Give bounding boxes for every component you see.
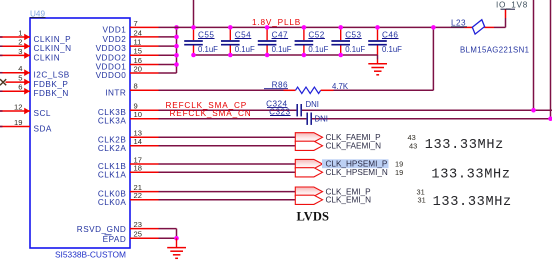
wire RSVD_GND/EPAD to ground bbox=[159, 229, 179, 241]
svg-text:SDA: SDA bbox=[34, 125, 52, 134]
svg-text:0.1uF: 0.1uF bbox=[382, 45, 402, 54]
pin 3 CLKIN wire bbox=[0, 47, 60, 63]
svg-text:0.1uF: 0.1uF bbox=[235, 45, 255, 54]
svg-text:10: 10 bbox=[134, 110, 142, 119]
svg-text:R86: R86 bbox=[272, 80, 288, 89]
pin 19 SDA wire bbox=[0, 118, 52, 134]
wire to CLK_FAEMI_N bbox=[159, 145, 296, 147]
capacitor C323 DNI bbox=[269, 107, 328, 125]
wire rail to ferrite L23 bbox=[464, 26, 506, 28]
wire VDD bus verticals and horizontals bbox=[159, 27, 177, 73]
svg-text:8: 8 bbox=[134, 82, 138, 91]
net label REFCLK_SMA_CN bbox=[170, 109, 252, 118]
capacitor C52 0.1uF bbox=[295, 27, 329, 55]
svg-text:CLKIN_P: CLKIN_P bbox=[34, 35, 72, 44]
svg-text:31: 31 bbox=[418, 196, 426, 205]
svg-text:CLK2A: CLK2A bbox=[98, 144, 126, 153]
U49 reference designator bbox=[30, 9, 46, 18]
power net IO_1V8 bbox=[496, 1, 528, 28]
pin 17 CLK1B stub bbox=[98, 155, 159, 171]
svg-text:CLK3A: CLK3A bbox=[98, 117, 126, 126]
svg-text:C52: C52 bbox=[308, 30, 324, 39]
pin 22 CLK0A stub bbox=[98, 191, 159, 207]
wire REFCLK_SMA_CP bbox=[159, 109, 552, 111]
svg-text:I2C_LSB: I2C_LSB bbox=[34, 71, 70, 80]
svg-text:LVDS: LVDS bbox=[297, 209, 330, 223]
net label CLK_FAEMI_N bbox=[326, 142, 418, 151]
svg-text:19: 19 bbox=[14, 118, 22, 127]
svg-text:U49: U49 bbox=[30, 9, 45, 18]
svg-text:CLK_EMI_N: CLK_EMI_N bbox=[326, 196, 372, 205]
off-page connector CLK_EMI_P bbox=[295, 187, 322, 196]
svg-text:0.1uF: 0.1uF bbox=[272, 45, 292, 54]
ground for capacitor bank bbox=[368, 55, 387, 75]
svg-text:C53: C53 bbox=[345, 30, 361, 39]
junction dots on cap rails bbox=[191, 25, 380, 57]
wire to CLK_EMI_P bbox=[159, 191, 296, 193]
net label REFCLK_SMA_CP bbox=[166, 101, 248, 110]
wire branches up at sheet right edge bbox=[531, 0, 552, 121]
pin 23 RSVD_GND stub bbox=[77, 220, 159, 234]
svg-text:7: 7 bbox=[134, 19, 138, 28]
capacitor C46 0.1uF bbox=[368, 27, 402, 55]
wire capacitor bottom rail bbox=[194, 54, 378, 56]
svg-text:18: 18 bbox=[134, 164, 142, 173]
pin 16 VDDO1 stub bbox=[96, 56, 159, 72]
svg-text:VDD1: VDD1 bbox=[102, 25, 126, 34]
net label CLK_HPSEMI_N bbox=[326, 168, 404, 177]
svg-text:C47: C47 bbox=[272, 30, 288, 39]
svg-text:VDDO2: VDDO2 bbox=[96, 53, 127, 62]
svg-text:CLKIN_N: CLKIN_N bbox=[34, 44, 72, 53]
net label CLK_FAEMI_P bbox=[326, 133, 416, 142]
svg-text:22: 22 bbox=[134, 191, 142, 200]
U49 part value label bbox=[55, 249, 126, 259]
net label CLK_HPSEMI_P bbox=[326, 160, 404, 169]
svg-text:24: 24 bbox=[134, 28, 142, 37]
svg-text:CLK_FAEMI_N: CLK_FAEMI_N bbox=[326, 142, 382, 151]
capacitor C55 0.1uF bbox=[184, 27, 218, 55]
pin 14 CLK2A stub bbox=[98, 137, 159, 153]
pin 20 VDDO0 stub bbox=[96, 64, 159, 80]
pin 5 FDBK_P wire bbox=[6, 74, 69, 90]
pin 15 VDDO2 stub bbox=[96, 47, 159, 63]
pin 2 CLKIN_N wire bbox=[0, 38, 72, 54]
off-page connector CLK_HPSEMI_N bbox=[295, 168, 322, 177]
svg-text:14: 14 bbox=[134, 137, 142, 146]
svg-text:0.1uF: 0.1uF bbox=[198, 45, 218, 54]
svg-text:5: 5 bbox=[18, 74, 22, 83]
wire to CLK_EMI_N bbox=[159, 199, 296, 201]
pin 11 VDDO3 stub bbox=[96, 38, 159, 54]
pin 21 CLK0B stub bbox=[98, 183, 159, 199]
svg-text:20: 20 bbox=[134, 64, 142, 73]
pin 8 INTR stub bbox=[105, 82, 158, 98]
net label CLK_EMI_P bbox=[326, 187, 425, 196]
capacitor C324 DNI bbox=[266, 99, 319, 116]
frequency note 133.33MHz (CLK_EMI) bbox=[433, 195, 512, 210]
pin 25 EPAD stub bbox=[103, 230, 159, 244]
svg-text:C46: C46 bbox=[382, 30, 398, 39]
L23 part number BLM15AG221SN1 bbox=[460, 45, 529, 54]
svg-text:DNI: DNI bbox=[315, 115, 328, 124]
svg-text:19: 19 bbox=[395, 168, 403, 177]
ground at EPAD bbox=[167, 238, 186, 258]
off-page connector CLK_EMI_N bbox=[295, 195, 322, 204]
svg-text:11: 11 bbox=[134, 38, 142, 47]
svg-text:SI5338B-CUSTOM: SI5338B-CUSTOM bbox=[55, 249, 126, 259]
wire to CLK_FAEMI_P bbox=[159, 136, 296, 138]
svg-text:IO_1V8: IO_1V8 bbox=[496, 1, 528, 10]
pin 4 I2C_LSB wire bbox=[0, 64, 70, 80]
pin 6 FDBK_N wire bbox=[0, 83, 69, 99]
svg-text:6: 6 bbox=[18, 83, 22, 92]
svg-text:2: 2 bbox=[18, 38, 22, 47]
net label 1.8V_PLLB bbox=[252, 18, 301, 27]
svg-text:3: 3 bbox=[18, 47, 22, 56]
frequency note 133.33MHz (CLK_HPSEMI) bbox=[431, 168, 510, 183]
pin 18 CLK1A stub bbox=[98, 164, 159, 180]
svg-text:SCL: SCL bbox=[34, 109, 51, 118]
svg-text:CLK0A: CLK0A bbox=[98, 198, 126, 207]
svg-text:0.1uF: 0.1uF bbox=[345, 45, 365, 54]
svg-text:23: 23 bbox=[134, 220, 142, 229]
capacitor C53 0.1uF bbox=[331, 27, 365, 55]
svg-text:BLM15AG221SN1: BLM15AG221SN1 bbox=[460, 45, 529, 54]
selection highlight on CLK_HPSEMI_P bbox=[322, 159, 389, 168]
wire INTR to R86 bbox=[159, 89, 296, 91]
capacitor C47 0.1uF bbox=[258, 27, 292, 55]
frequency note 133.33MHz (CLK_FAEMI) bbox=[425, 138, 504, 153]
off-page connector CLK_HPSEMI_P bbox=[295, 159, 322, 168]
svg-text:133.33MHz: 133.33MHz bbox=[433, 195, 512, 210]
pin 13 CLK2B stub bbox=[98, 129, 159, 145]
svg-text:VDDO3: VDDO3 bbox=[96, 44, 127, 53]
svg-text:C54: C54 bbox=[235, 30, 251, 39]
svg-text:4: 4 bbox=[18, 64, 22, 73]
svg-text:133.33MHz: 133.33MHz bbox=[431, 168, 510, 183]
off-page connector CLK_FAEMI_N bbox=[295, 141, 322, 150]
svg-text:25: 25 bbox=[134, 230, 142, 239]
junction dots on VDD bus bbox=[174, 25, 179, 67]
svg-text:VDD2: VDD2 bbox=[102, 35, 126, 44]
note LVDS bbox=[297, 209, 330, 223]
inductor / ferrite bead L23 bbox=[451, 19, 485, 34]
net label CLK_EMI_N bbox=[326, 196, 426, 205]
svg-text:15: 15 bbox=[134, 47, 142, 56]
wire R86 to 1.8V rail bbox=[321, 25, 436, 90]
svg-text:EPAD: EPAD bbox=[103, 235, 127, 244]
svg-text:CLK_HPSEMI_N: CLK_HPSEMI_N bbox=[326, 168, 388, 177]
op-amp U49 IC body SI5338B bbox=[30, 18, 130, 248]
svg-text:CLK1A: CLK1A bbox=[98, 170, 126, 179]
svg-text:INTR: INTR bbox=[105, 88, 126, 97]
svg-text:FDBK_P: FDBK_P bbox=[34, 80, 69, 89]
pin 24 VDD2 stub bbox=[102, 28, 158, 44]
svg-text:133.33MHz: 133.33MHz bbox=[425, 138, 504, 153]
pin 10 CLK3A stub bbox=[98, 110, 159, 126]
svg-text:0.1uF: 0.1uF bbox=[308, 45, 328, 54]
svg-text:1.8V_PLLB: 1.8V_PLLB bbox=[252, 18, 301, 27]
wire to CLK_HPSEMI_N bbox=[159, 171, 296, 173]
svg-text:L23: L23 bbox=[451, 19, 466, 28]
svg-text:FDBK_N: FDBK_N bbox=[34, 89, 69, 98]
resistor R86 4.7K bbox=[264, 80, 349, 93]
svg-text:C55: C55 bbox=[198, 30, 214, 39]
pin 7 VDD1 stub bbox=[102, 19, 158, 35]
svg-text:RSVD_GND: RSVD_GND bbox=[77, 225, 127, 234]
pin 1 CLKIN_P wire bbox=[0, 28, 71, 44]
wire 1.8V_PLLB top rail bbox=[159, 26, 465, 28]
svg-text:VDDO0: VDDO0 bbox=[96, 71, 127, 80]
wire stub up to sheet top at C55 column bbox=[193, 0, 195, 27]
svg-text:1: 1 bbox=[18, 28, 22, 37]
no-connect X on FDBK_P bbox=[0, 79, 6, 85]
svg-text:43: 43 bbox=[409, 142, 417, 151]
svg-text:12: 12 bbox=[14, 102, 22, 111]
svg-text:REFCLK_SMA_CN: REFCLK_SMA_CN bbox=[170, 109, 252, 118]
svg-text:CLKIN: CLKIN bbox=[34, 53, 61, 62]
capacitor C54 0.1uF bbox=[221, 27, 255, 55]
wire REFCLK_SMA_CN bbox=[159, 118, 552, 120]
off-page connector CLK_FAEMI_P bbox=[295, 133, 322, 142]
svg-text:DNI: DNI bbox=[306, 100, 319, 109]
wire to CLK_HPSEMI_P bbox=[159, 163, 296, 165]
pin 12 SCL wire bbox=[0, 102, 51, 118]
pin 9 CLK3B stub bbox=[98, 102, 159, 118]
